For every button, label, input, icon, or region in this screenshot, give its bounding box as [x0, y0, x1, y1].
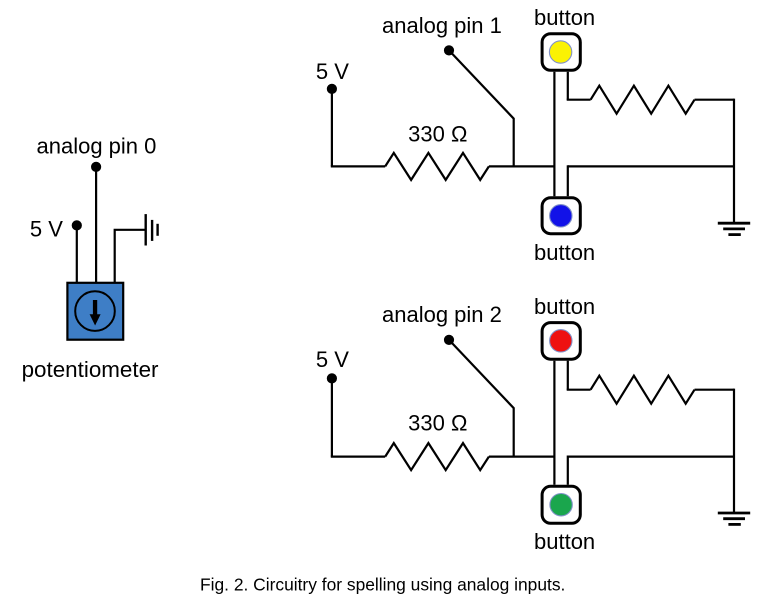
- resistor R1 330 ohm (top): [385, 153, 489, 180]
- wire potentiometer pin 3 to ground: [115, 230, 146, 283]
- wire button S1 pin 2 to resistor R2 (top): [567, 99, 591, 101]
- potentiometer RV1 dial circle: [75, 291, 115, 331]
- ground (potentiometer): [146, 214, 158, 245]
- wire main rail right segment (top): [568, 165, 734, 167]
- resistor R4 (bottom, to ground): [591, 376, 695, 404]
- potentiometer RV1 wiper arrow: [90, 300, 101, 326]
- wire ground drop vertical (bottom): [733, 389, 735, 513]
- svg-text:5 V: 5 V: [316, 347, 349, 372]
- svg-text:analog pin 1: analog pin 1: [382, 13, 502, 38]
- svg-text:button: button: [534, 294, 595, 319]
- node analog pin 2 terminal dot: [444, 335, 454, 345]
- wire button S3 pin 1 to button S4 pin 1 (left pins, bottom): [553, 361, 555, 485]
- node analog pin 1 terminal dot: [444, 45, 454, 55]
- svg-text:330 Ω: 330 Ω: [408, 121, 467, 146]
- node analog pin 0 terminal dot: [91, 162, 101, 172]
- button S4 body (green): [542, 486, 580, 523]
- wire ground drop vertical (top): [733, 99, 735, 224]
- svg-text:Fig. 2. Circuitry for spelling: Fig. 2. Circuitry for spelling using ana…: [200, 575, 565, 595]
- wire analog pin 0 to potentiometer wiper: [95, 167, 97, 283]
- wire analog pin 2 to main rail (bottom): [449, 340, 514, 457]
- ground (bottom circuit): [718, 513, 750, 524]
- button S3 body (red): [542, 323, 580, 360]
- potentiometer RV1 body: [67, 283, 123, 340]
- node 5 V terminal dot (bottom circuit): [327, 373, 337, 383]
- svg-text:analog pin 2: analog pin 2: [382, 302, 502, 327]
- node 5 V terminal dot (top circuit): [327, 84, 337, 94]
- wire button S1 pin 2 down (top): [567, 72, 569, 100]
- button S4 green cap: [550, 494, 572, 516]
- wire button S1 pin 1 to button S2 pin 1 (left pins, top): [553, 72, 555, 196]
- svg-text:5 V: 5 V: [316, 59, 349, 84]
- svg-text:potentiometer: potentiometer: [22, 357, 159, 382]
- svg-text:analog pin 0: analog pin 0: [37, 133, 157, 158]
- wire resistor R4 to ground drop (bottom): [695, 389, 735, 391]
- wire button S4 pin 2 to main rail (bottom): [567, 456, 569, 485]
- svg-text:button: button: [534, 529, 595, 554]
- wire 5 V to potentiometer pin 1: [76, 225, 78, 283]
- wire main rail right segment (bottom): [568, 456, 734, 458]
- wire analog pin 1 to main rail (top): [449, 50, 514, 166]
- wire 5 V down to main rail (bottom): [331, 378, 333, 456]
- svg-text:button: button: [534, 5, 595, 30]
- button S3 red cap: [550, 330, 572, 352]
- resistor R3 330 ohm (bottom): [385, 443, 489, 470]
- wire main rail to resistor R3 (bottom): [331, 456, 385, 458]
- resistor R2 (top, to ground): [591, 86, 695, 114]
- wire main rail to resistor R1 (top): [331, 165, 385, 167]
- svg-text:330 Ω: 330 Ω: [408, 411, 467, 436]
- wire resistor R1 to button pins (top): [489, 165, 555, 167]
- button S2 blue cap: [550, 205, 572, 227]
- wire resistor R3 to button pins (bottom): [489, 456, 555, 458]
- button S1 body (yellow): [542, 34, 580, 71]
- wire button S3 pin 2 down (bottom): [567, 361, 569, 390]
- button S2 body (blue): [542, 198, 580, 234]
- wire resistor R2 to ground drop (top): [695, 99, 735, 101]
- wire button S3 pin 2 to resistor R4 (bottom): [567, 389, 591, 391]
- svg-text:button: button: [534, 240, 595, 265]
- wire 5 V down to main rail (top): [331, 89, 333, 166]
- svg-text:5 V: 5 V: [30, 217, 63, 242]
- node 5 V terminal dot (potentiometer): [72, 220, 82, 230]
- wire button S2 pin 2 to main rail (top): [567, 165, 569, 196]
- button S1 yellow cap: [549, 41, 571, 63]
- ground (top circuit): [718, 223, 750, 234]
